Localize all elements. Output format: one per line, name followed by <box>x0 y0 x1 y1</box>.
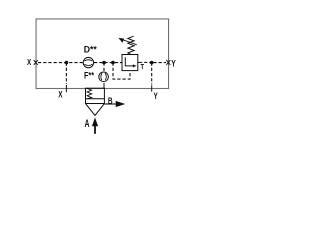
svg-text:Y: Y <box>154 91 158 101</box>
svg-text:X: X <box>27 57 32 67</box>
svg-text:Y: Y <box>171 58 176 69</box>
wire: Y drain tick through bottom edge <box>151 85 153 91</box>
node J3 (pilot drain branch) <box>111 61 115 65</box>
pilot valve V1 internal flow path with arrow <box>125 57 133 66</box>
wire: pilot valve drain loop (dashed) <box>113 63 130 80</box>
gauge port D chords <box>84 60 92 66</box>
gauge port D circle <box>83 57 93 67</box>
svg-text:A: A <box>85 118 90 130</box>
svg-text:T: T <box>141 62 145 71</box>
wire: port B line <box>104 103 115 105</box>
main valve V2 poppet funnel <box>86 104 105 116</box>
wire: vertical dashed through gauge F to main valve <box>103 63 105 72</box>
svg-text:B: B <box>108 96 113 107</box>
port A arrow <box>94 126 96 134</box>
port Y plug mark (right edge) <box>166 60 170 65</box>
gauge port F circle <box>99 72 109 82</box>
wire: X drain vertical dashed <box>65 63 67 84</box>
wire: Y drain vertical dashed <box>151 63 153 85</box>
node J1 (X drain branch) <box>65 61 69 65</box>
pilot relief valve V1 box <box>122 55 138 71</box>
svg-text:F**: F** <box>84 71 94 81</box>
wire: X drain tick through bottom edge <box>65 85 67 92</box>
main valve V2 spring <box>87 88 92 98</box>
port X plug mark (left edge) <box>34 60 38 65</box>
port B arrow <box>116 101 126 107</box>
gauge port F chords <box>101 73 107 80</box>
wire: pilot valve outlet to Y line (dashed) <box>138 61 143 63</box>
main cartridge valve V2 body <box>86 88 105 103</box>
node J4 (Y drain branch) <box>150 61 154 65</box>
main valve V2 divider line <box>86 98 105 100</box>
wire: Y line to right edge (dashed) <box>153 62 166 64</box>
valve housing frame <box>36 19 169 89</box>
wire: pilot line X (horizontal dashed) <box>38 62 83 64</box>
pilot valve V1 spring <box>128 36 134 54</box>
svg-text:X: X <box>58 90 62 100</box>
pilot valve V1 adjustment arrow <box>122 39 137 45</box>
svg-text:D**: D** <box>84 45 98 55</box>
node J2 (above gauge F) <box>102 61 106 65</box>
